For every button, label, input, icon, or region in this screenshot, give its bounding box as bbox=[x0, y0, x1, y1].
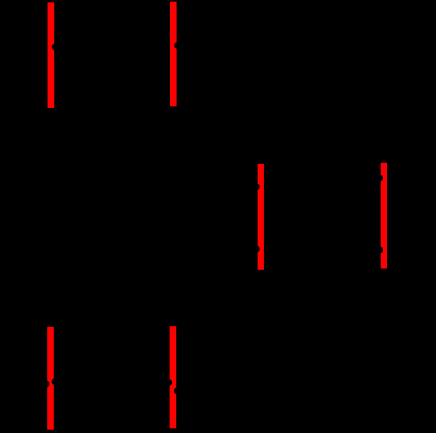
wire: lead to capacitor C3 bbox=[270, 247, 312, 254]
wire: highlighted net segment F (red, mid column bottom) bbox=[170, 326, 177, 428]
wire: net C column continuation downward bbox=[257, 270, 264, 433]
wire: lead from capacitor C4 to net F bbox=[124, 379, 169, 386]
wire: lead from net E to capacitor C4 bbox=[55, 378, 101, 385]
wire: left edge lead into net E bbox=[0, 381, 46, 388]
capacitor C4 (plates, black) bbox=[107, 363, 119, 403]
resistor R1 (zigzag, black) bbox=[222, 36, 252, 55]
node: junction at mid column / lower branch bbox=[169, 245, 177, 253]
wire: from net F right terminal down along net C column bbox=[177, 391, 261, 433]
capacitor C2 (plates, black) bbox=[316, 158, 328, 198]
wire: net D column continuation downward bbox=[381, 269, 388, 433]
node: junction at mid column / upper branch bbox=[169, 183, 177, 191]
wire: branch to net C upper terminal bbox=[173, 184, 256, 191]
wire: left column vertical (net A bottom to net E top) bbox=[48, 108, 55, 327]
capacitor C1 (plates, black) bbox=[107, 25, 119, 69]
wire: highlighted net segment D (red, right column middle) bbox=[381, 163, 387, 269]
wire: branch to net C lower terminal bbox=[173, 246, 256, 253]
wire: lead from capacitor C1 to net B bbox=[124, 44, 166, 51]
capacitor C3 (plates, black) bbox=[316, 230, 328, 270]
wire: lead from net A to capacitor C1 bbox=[55, 44, 101, 51]
node: junction at net C column / net F branch bbox=[257, 387, 265, 395]
wire: highlighted net segment A (red, left column top) bbox=[48, 2, 55, 108]
wire: from resistor R1 down to net C bbox=[252, 46, 261, 161]
wire: lead from capacitor C3 to net D lower terminal bbox=[331, 247, 380, 254]
wire: highlighted net segment E (red, left column bottom) bbox=[47, 327, 54, 430]
wire: mid column vertical (net B bottom to net F top) bbox=[170, 106, 177, 326]
wire: lead from capacitor C2 to net D upper terminal bbox=[331, 175, 380, 182]
wire: lead from net B to resistor R1 bbox=[178, 42, 223, 49]
wire: highlighted net segment B (red, mid column top) bbox=[170, 2, 177, 107]
wire: lead to capacitor C2 bbox=[270, 175, 312, 182]
wire: highlighted net segment C (red, mid-right column middle) bbox=[258, 164, 264, 270]
